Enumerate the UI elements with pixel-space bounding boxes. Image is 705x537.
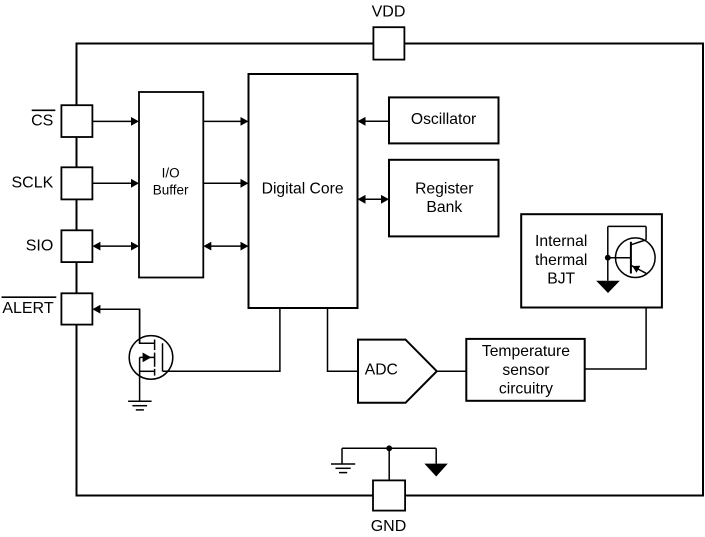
svg-text:Internal: Internal: [535, 233, 587, 250]
svg-text:CS: CS: [31, 113, 53, 130]
svg-text:Bank: Bank: [426, 199, 462, 216]
svg-text:SIO: SIO: [26, 237, 54, 254]
svg-text:Temperature: Temperature: [482, 343, 570, 360]
svg-text:SCLK: SCLK: [12, 175, 54, 192]
svg-text:ADC: ADC: [365, 362, 398, 379]
svg-text:BJT: BJT: [547, 271, 575, 288]
svg-text:circuitry: circuitry: [499, 380, 553, 397]
svg-text:Buffer: Buffer: [153, 183, 189, 198]
svg-text:GND: GND: [371, 518, 407, 535]
svg-text:I/O: I/O: [162, 166, 180, 181]
svg-text:VDD: VDD: [372, 3, 406, 20]
svg-text:Register: Register: [415, 180, 473, 197]
svg-text:ALERT: ALERT: [2, 300, 54, 317]
svg-text:sensor: sensor: [502, 362, 549, 379]
svg-text:Digital Core: Digital Core: [262, 180, 344, 197]
svg-text:thermal: thermal: [535, 252, 587, 269]
svg-text:Oscillator: Oscillator: [411, 111, 476, 128]
